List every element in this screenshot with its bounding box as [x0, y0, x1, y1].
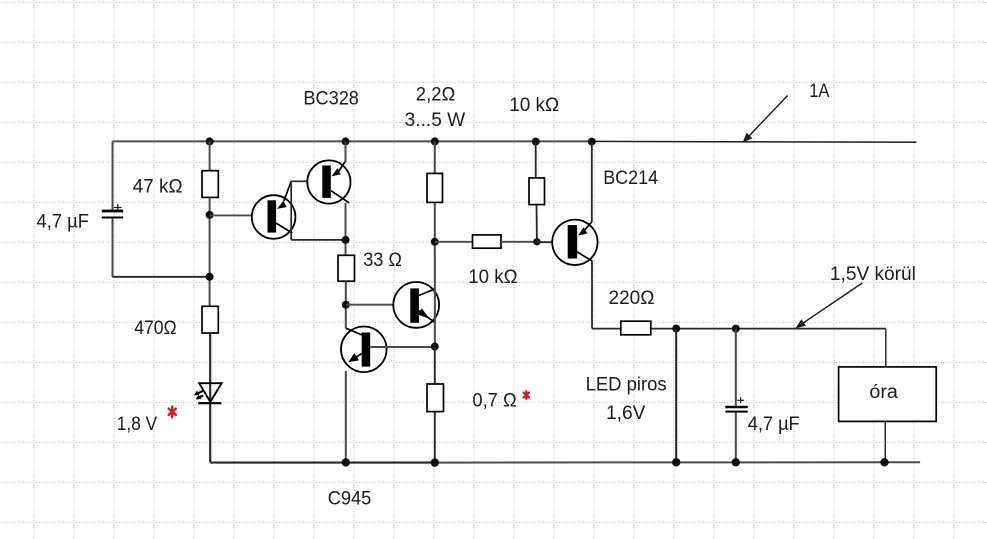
wire 1,5V rail — [651, 328, 886, 330]
wire Q5 emitter to top rail — [591, 142, 593, 223]
node junction Q1/Q2 collectors — [342, 236, 350, 244]
node junction capacitor branch — [206, 273, 214, 281]
node junction rail / LED branch — [672, 325, 680, 333]
transistor Q2 BC328 (right PNP) — [307, 160, 350, 203]
svg-text:1A: 1A — [809, 81, 829, 102]
wire 2,2Ω down across Q3 to emitter node — [434, 202, 436, 346]
wire 10k horizontal left lead — [435, 241, 473, 243]
wire R47k down through nodes to R470 — [209, 197, 211, 306]
node junction 10k / Q5 base — [533, 238, 540, 245]
wire below capacitor — [112, 219, 114, 277]
svg-text:4,7 µF: 4,7 µF — [748, 414, 800, 435]
wire T1 base lead — [210, 214, 268, 216]
block óra — [839, 367, 937, 422]
wire cap branch lower — [735, 413, 737, 463]
svg-text:LED piros: LED piros — [586, 375, 667, 396]
svg-text:4,7 µF: 4,7 µF — [37, 212, 90, 233]
annotation arrow 1A — [743, 81, 830, 143]
resistor 10 kΩ (horizontal) — [473, 235, 502, 248]
wire Q4 emitter down to bottom rail — [345, 371, 347, 462]
wire bottom rail right — [435, 461, 920, 463]
svg-text:1,8 V: 1,8 V — [117, 414, 158, 435]
node junction Q3 emitter / Q4 base / 0,7Ω — [431, 343, 439, 351]
svg-text:10 kΩ: 10 kΩ — [509, 95, 559, 116]
transistor Q3 C945 (upper NPN) — [393, 282, 439, 328]
resistor 0,7 Ω — [427, 384, 444, 412]
LED D1 — [194, 383, 222, 403]
node junction 33Ω bottom / Q3 base — [342, 301, 350, 309]
svg-text:BC214: BC214 — [603, 168, 658, 189]
wire 10k horizontal right lead — [501, 241, 537, 243]
resistor 220Ω — [621, 321, 651, 335]
wire top supply rail right — [592, 140, 916, 143]
svg-text:47 kΩ: 47 kΩ — [133, 177, 183, 198]
wire R470 to LED and down to bottom rail — [209, 333, 211, 463]
wire capacitor bottom to node — [113, 276, 210, 278]
wire óra to bottom rail — [884, 421, 886, 462]
asterisk marker (red) right — [524, 391, 529, 399]
svg-text:10 kΩ: 10 kΩ — [468, 267, 518, 288]
wire Q2 emitter up to rail — [345, 141, 347, 161]
resistor 47 kΩ — [202, 171, 218, 198]
capacitor C2 4,7 µF (right) — [725, 397, 747, 411]
asterisk marker (red) left — [169, 407, 176, 418]
svg-text:1,6V: 1,6V — [606, 403, 646, 424]
annotation arrow 1,5V körül — [796, 264, 916, 328]
transistor Q4 C945 (lower NPN) — [341, 327, 387, 373]
svg-text:470Ω: 470Ω — [134, 318, 177, 339]
node junction Q2 emitter / top rail — [342, 137, 350, 145]
wire Q1 emitter to Q2 base — [291, 180, 322, 182]
wire Q2 collector down to 33Ω — [345, 203, 347, 255]
resistor 470Ω — [202, 306, 218, 333]
node junction top rail / 10k vertical — [532, 138, 540, 146]
node junction bottom rail / óra — [880, 458, 888, 466]
node junction 47k bottom / T1 base — [206, 211, 214, 219]
svg-text:óra: óra — [869, 382, 898, 403]
svg-text:BC328: BC328 — [303, 89, 359, 110]
wire node to R 0,7Ω — [434, 347, 436, 384]
wire rail to R 10k vertical — [535, 142, 537, 178]
resistor 33 Ω — [338, 255, 355, 281]
transistor Q5 BC214 (PNP) — [552, 220, 597, 265]
node junction bottom rail / LED branch — [672, 458, 680, 466]
wire rail corner down to óra box — [885, 329, 887, 367]
wire 0,7Ω to bottom rail — [434, 412, 436, 463]
wire 10k vertical to base node — [536, 205, 538, 242]
node junction top rail / Q5 emitter — [588, 138, 596, 146]
wire 33Ω to Q3 base node — [345, 281, 347, 328]
node junction 2,2Ω / 10k horizontal — [431, 238, 439, 246]
wire left branch down to capacitor — [112, 141, 114, 209]
wire top supply rail left — [113, 140, 593, 142]
capacitor C1 4,7 µF (left) — [102, 204, 123, 218]
node junction rail / cap branch — [732, 325, 740, 333]
svg-text:220Ω: 220Ω — [609, 288, 655, 309]
svg-text:33 Ω: 33 Ω — [363, 250, 402, 271]
wire Q5 base lead — [537, 241, 568, 243]
node junction bottom rail / cap branch — [732, 458, 740, 466]
wire to 220Ω — [592, 328, 621, 330]
wire Q5 collector down — [591, 261, 593, 328]
svg-text:0,7 Ω: 0,7 Ω — [472, 390, 516, 411]
node junction top rail / 47k branch — [206, 137, 214, 145]
resistor 2,2Ω 3...5 W — [427, 173, 443, 202]
node junction bottom rail / 0,7Ω — [431, 458, 439, 466]
svg-text:1,5V körül: 1,5V körül — [830, 264, 916, 285]
wire rail to R 2,2Ω — [434, 141, 436, 173]
svg-text:3...5 W: 3...5 W — [405, 110, 466, 131]
wire Q3 base lead — [346, 304, 411, 306]
wire Q4 base lead — [370, 346, 435, 348]
wire cap branch upper — [735, 329, 737, 406]
svg-text:2,2Ω: 2,2Ω — [416, 85, 456, 106]
node junction bottom rail / Q4 emitter — [342, 458, 350, 466]
resistor 10 kΩ (vertical) — [529, 178, 545, 205]
wire bottom rail left — [210, 462, 435, 464]
wire LED branch vertical — [675, 329, 677, 463]
wire top rail to R 47k — [209, 141, 211, 170]
node junction top rail / 2,2Ω branch — [431, 137, 439, 145]
svg-text:C945: C945 — [328, 488, 372, 509]
wire link to node 33Ω top — [291, 239, 345, 241]
transistor Q1 BC328 (left PNP) — [252, 181, 296, 239]
wire vertical link at x291 — [290, 181, 292, 240]
